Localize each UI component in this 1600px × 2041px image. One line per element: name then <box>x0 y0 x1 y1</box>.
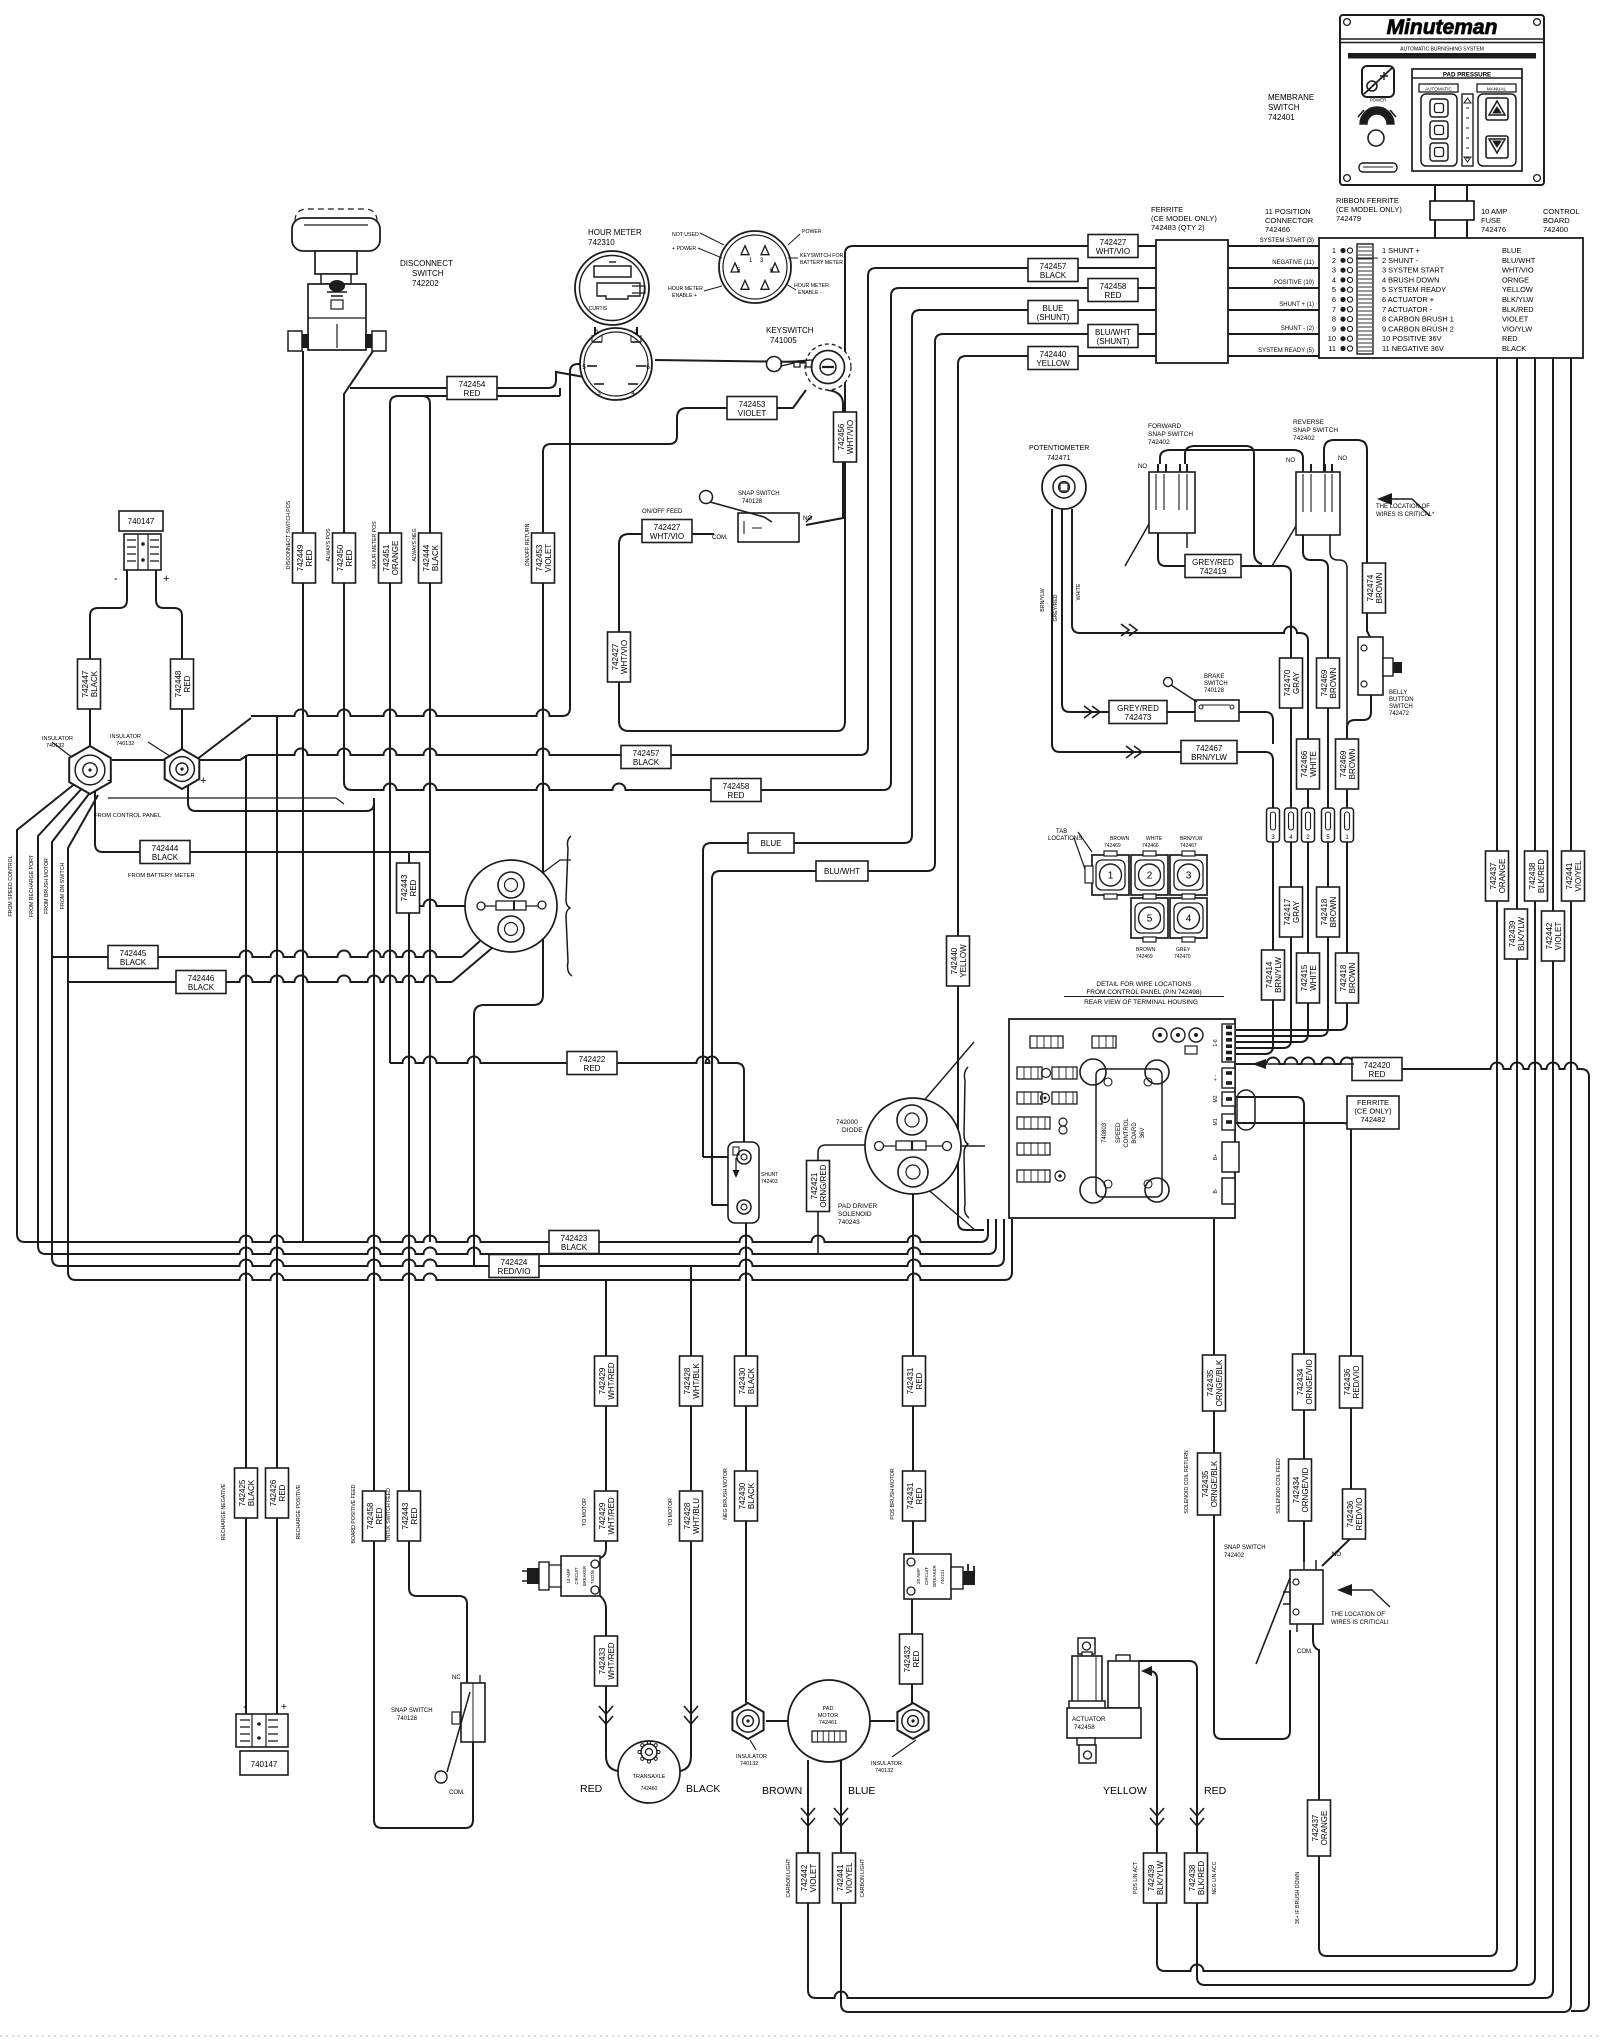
svg-text:PAD: PAD <box>823 1706 834 1712</box>
svg-text:MOTOR: MOTOR <box>818 1713 838 1719</box>
svg-text:742000: 742000 <box>836 1119 858 1126</box>
wire label 742442 VIOLET <box>797 1853 820 1903</box>
svg-text:BROWN: BROWN <box>1375 572 1384 603</box>
snap switch 740128 bottom <box>461 1683 485 1742</box>
wire 742457 black negative <box>112 755 248 760</box>
svg-text:SHUNT + (1): SHUNT + (1) <box>1279 302 1314 308</box>
svg-text:RED/VIO: RED/VIO <box>498 1267 531 1276</box>
svg-text:SWITCH: SWITCH <box>1268 103 1300 112</box>
svg-text:ORNG/RED: ORNG/RED <box>819 1164 828 1207</box>
svg-text:WHT/VIO: WHT/VIO <box>1096 247 1130 256</box>
svg-text:RED: RED <box>464 389 481 398</box>
wire 742443 red intlk switch feed <box>409 852 467 1683</box>
wire label 742448 RED <box>171 659 194 709</box>
svg-text:BROWN: BROWN <box>1329 667 1338 698</box>
svg-text:742435: 742435 <box>1201 1470 1210 1497</box>
knob <box>1368 130 1384 146</box>
wire forward NO to reverse switch <box>1160 450 1303 464</box>
svg-text:4: 4 <box>631 390 635 397</box>
svg-text:740147: 740147 <box>128 517 155 526</box>
wire 742448 red battery positive <box>156 570 182 751</box>
svg-text:742430: 742430 <box>738 1482 747 1509</box>
svg-text:10: 10 <box>1328 334 1336 343</box>
svg-text:6 ACTUATOR +: 6 ACTUATOR + <box>1382 295 1434 304</box>
speed control board 740803 <box>1096 1069 1162 1197</box>
svg-text:742466: 742466 <box>1142 843 1159 849</box>
svg-text:NEG BRUSH MOTOR: NEG BRUSH MOTOR <box>723 1468 729 1520</box>
svg-text:742472: 742472 <box>1389 711 1410 717</box>
svg-text:ORANGE: ORANGE <box>1320 1811 1329 1846</box>
svg-text:BLU/WHT: BLU/WHT <box>824 867 860 876</box>
svg-text:NO: NO <box>803 516 812 522</box>
wire from speed control <box>17 778 82 1242</box>
svg-text:RED: RED <box>728 791 745 800</box>
insulator 740132 right <box>897 1703 928 1739</box>
svg-text:742439: 742439 <box>1508 920 1517 947</box>
svg-text:742473: 742473 <box>1125 713 1152 722</box>
svg-text:740132: 740132 <box>46 743 64 749</box>
svg-text:PAD PRESSURE: PAD PRESSURE <box>1443 72 1491 79</box>
svg-text:742427: 742427 <box>1100 238 1127 247</box>
svg-text:SOLENOID: SOLENOID <box>838 1211 872 1218</box>
wire 742422 red <box>390 1057 736 1064</box>
svg-text:742443: 742443 <box>400 874 409 901</box>
svg-text:GREY/RED: GREY/RED <box>1192 558 1234 567</box>
svg-text:742310: 742310 <box>588 238 615 247</box>
wire label GREY/RED 742419 <box>1185 555 1241 578</box>
svg-text:4: 4 <box>1186 914 1192 925</box>
svg-text:COM.: COM. <box>449 1790 465 1796</box>
svg-text:742422: 742422 <box>579 1055 606 1064</box>
wire 742436 red/vio <box>1236 1123 1351 1566</box>
svg-text:5: 5 <box>582 364 586 371</box>
svg-text:WHT/RED: WHT/RED <box>607 1362 616 1400</box>
wire hour meter pin stubs <box>594 327 596 337</box>
svg-text:742444: 742444 <box>152 844 179 853</box>
svg-text:ORNGE/VID: ORNGE/VID <box>1301 1467 1310 1512</box>
svg-text:2: 2 <box>634 329 638 336</box>
svg-text:742442: 742442 <box>800 1864 809 1891</box>
wire label 742428 WHT/BLK <box>680 1356 703 1406</box>
svg-text:ORNGE/BLK: ORNGE/BLK <box>1215 1359 1224 1406</box>
snap switch 740128 <box>738 513 799 542</box>
page edge dotted line <box>0 2035 1600 2037</box>
wire label 742434 ORNGE/VID <box>1289 1459 1312 1521</box>
svg-text:CONTROL: CONTROL <box>1543 207 1580 216</box>
svg-text:+ POWER: + POWER <box>672 246 696 252</box>
wire label 742440 YELLOW <box>1028 347 1078 370</box>
transaxle 742460 <box>618 1741 680 1803</box>
svg-text:FROM ON SWITCH: FROM ON SWITCH <box>60 863 66 910</box>
svg-text:WHT/VIO: WHT/VIO <box>650 532 684 541</box>
svg-text:AUTOMATIC BURNISHING SYSTEM: AUTOMATIC BURNISHING SYSTEM <box>1400 47 1484 53</box>
svg-text:RED: RED <box>912 1650 921 1667</box>
svg-text:742453: 742453 <box>535 544 544 571</box>
wire label 742427 WHT/VIO <box>1088 235 1138 258</box>
hour meter connector <box>580 328 652 400</box>
svg-text:COM.: COM. <box>712 535 728 541</box>
svg-text:BELLY: BELLY <box>1389 690 1407 696</box>
wire label 742445 BLACK <box>108 946 158 969</box>
hour meter 742310 <box>575 251 649 325</box>
svg-text:5: 5 <box>1332 285 1336 294</box>
svg-text:DIODE: DIODE <box>842 1127 863 1134</box>
wire label 742441 VIO/YEL <box>833 1853 856 1903</box>
insulator 740132 left <box>732 1703 763 1739</box>
svg-text:YELLOW: YELLOW <box>1103 1785 1147 1797</box>
wire belly button to connector <box>1347 693 1371 808</box>
svg-text:742447: 742447 <box>81 670 90 697</box>
wire brake switch to connector <box>1239 712 1273 744</box>
svg-text:FROM RECHARGE PORT: FROM RECHARGE PORT <box>29 854 35 917</box>
wire 742442 violet carbon light <box>808 358 1553 1998</box>
svg-text:RECHARGE POSITIVE: RECHARGE POSITIVE <box>296 1484 302 1539</box>
wire 742467 brn/ylw <box>1052 509 1060 752</box>
svg-text:YELLOW: YELLOW <box>959 944 968 978</box>
svg-text:742402: 742402 <box>1224 1553 1245 1559</box>
svg-text:742403: 742403 <box>761 1179 778 1185</box>
bus wire 742424 red/vio <box>60 1260 996 1266</box>
pointer insulator 740132 <box>750 1740 756 1750</box>
svg-text:(SHUNT): (SHUNT) <box>1037 313 1070 322</box>
actuator 742458 <box>1078 1638 1095 1654</box>
svg-text:WHT/RED: WHT/RED <box>607 1497 616 1535</box>
svg-text:742482: 742482 <box>1360 1115 1385 1124</box>
svg-text:11 POSITION: 11 POSITION <box>1265 207 1311 216</box>
ferrite 742483 CE model only <box>1156 240 1228 363</box>
ribbon connector bar <box>1357 244 1373 354</box>
wire white potentiometer <box>1072 509 1308 808</box>
svg-text:WHITE: WHITE <box>1146 836 1163 842</box>
svg-text:VIOLET: VIOLET <box>738 409 767 418</box>
svg-text:ON/OFF FEED: ON/OFF FEED <box>642 509 683 515</box>
ferrite 742482 oval <box>1237 1090 1255 1130</box>
svg-text:740131: 740131 <box>940 1569 945 1585</box>
svg-text:742429: 742429 <box>598 1502 607 1529</box>
svg-text:BROWN: BROWN <box>1136 947 1156 953</box>
svg-text:HOUR METER POS: HOUR METER POS <box>372 521 378 569</box>
svg-text:BREAKER: BREAKER <box>932 1565 937 1587</box>
wire always pos 742450 <box>344 351 373 790</box>
svg-text:AUTOMATIC: AUTOMATIC <box>1425 87 1452 92</box>
disconnect switch 742202 <box>295 209 377 221</box>
wire label 742453 VIOLET <box>532 533 555 583</box>
svg-text:5 SYSTEM READY: 5 SYSTEM READY <box>1382 285 1446 294</box>
svg-text:RED: RED <box>345 549 354 566</box>
svg-text:M1: M1 <box>1213 1118 1219 1125</box>
wire positive feed to hour meter <box>196 718 251 760</box>
wire label 742439 BLK/YLW <box>1144 1853 1167 1903</box>
svg-text:-: - <box>243 1701 247 1713</box>
wire label 742423 BLACK <box>549 1231 599 1254</box>
svg-text:742470: 742470 <box>1283 669 1292 696</box>
svg-text:BLACK: BLACK <box>188 983 215 992</box>
svg-text:REAR VIEW OF TERMINAL HOUS: REAR VIEW OF TERMINAL HOUSING <box>1084 999 1198 1006</box>
svg-text:YELLOW: YELLOW <box>1502 285 1533 294</box>
wire label 742427 WHT/VIO <box>608 632 631 682</box>
svg-text:MANUAL: MANUAL <box>1487 87 1507 92</box>
wire blue shunt+ <box>703 310 1156 1157</box>
wire label 742458 RED <box>363 1491 386 1541</box>
svg-text:SNAP SWITCH: SNAP SWITCH <box>1148 431 1193 438</box>
svg-text:8: 8 <box>1332 315 1336 324</box>
svg-text:742466: 742466 <box>1265 225 1290 234</box>
wire label 742442 VIOLET <box>1542 911 1565 961</box>
wire 742438 blk/red neg lin act <box>1139 358 1535 1985</box>
svg-text:3 SYSTEM START: 3 SYSTEM START <box>1382 266 1445 275</box>
pad pressure controls <box>1412 69 1522 171</box>
wire 742469 brown <box>1303 535 1328 808</box>
svg-text:VIO/YEL: VIO/YEL <box>1574 860 1583 892</box>
pointer insulator 740132 right <box>148 742 176 760</box>
wire label 742426 RED <box>266 1468 289 1518</box>
svg-text:742436: 742436 <box>1343 1368 1352 1395</box>
wire pad motor right <box>869 1720 895 1722</box>
wire from recharge port <box>38 784 86 1254</box>
svg-text:740147: 740147 <box>251 1760 278 1769</box>
wire label 742443 RED <box>398 1491 421 1541</box>
snap switch 742402 lever <box>1256 1578 1290 1664</box>
svg-text:742454: 742454 <box>459 380 486 389</box>
svg-text:CIRCUIT: CIRCUIT <box>924 1567 929 1585</box>
svg-text:742436: 742436 <box>1346 1500 1355 1527</box>
svg-text:RED: RED <box>915 1372 924 1389</box>
snap switch 742402 bottom <box>1290 1570 1323 1624</box>
svg-text:COM.: COM. <box>1297 1649 1313 1655</box>
svg-text:RED: RED <box>1105 291 1122 300</box>
svg-text:VIO/YLW: VIO/YLW <box>1502 324 1532 333</box>
wire label 742458 RED <box>1088 279 1138 302</box>
svg-text:INTLK SWITCH FEED: INTLK SWITCH FEED <box>386 1488 392 1540</box>
svg-text:11 NEGATIVE 36V: 11 NEGATIVE 36V <box>1382 344 1444 353</box>
svg-text:ORNGE/VIO: ORNGE/VIO <box>1305 1359 1314 1404</box>
svg-text:VIOLET: VIOLET <box>1554 922 1563 951</box>
wire label 742444 BLACK <box>140 841 190 864</box>
svg-text:POTENTIOMETER: POTENTIOMETER <box>1029 445 1089 452</box>
wire label 742424 RED/VIO <box>489 1255 539 1278</box>
svg-text:BROWN: BROWN <box>1348 748 1357 779</box>
svg-text:742456: 742456 <box>837 423 846 450</box>
svg-text:BOARD POSITIVE FEED: BOARD POSITIVE FEED <box>351 1484 357 1543</box>
svg-text:FROM BATTERY METER: FROM BATTERY METER <box>128 873 195 879</box>
svg-text:TO MOTOR: TO MOTOR <box>582 1498 588 1526</box>
svg-text:742476: 742476 <box>1481 225 1506 234</box>
wire 742447 black battery negative <box>90 570 127 748</box>
wire label 742469 BROWN <box>1336 739 1359 789</box>
svg-text:742469: 742469 <box>1320 669 1329 696</box>
tab locations detail <box>1092 855 1129 895</box>
wire label 742418 BROWN <box>1317 887 1340 937</box>
svg-text:742471: 742471 <box>1047 455 1070 462</box>
svg-text:BLACK: BLACK <box>1502 344 1526 353</box>
wire 742439 blk/ylw pos lin act <box>1149 358 1517 1971</box>
svg-text:VIOLET: VIOLET <box>544 544 553 573</box>
svg-text:1: 1 <box>1332 246 1336 255</box>
svg-text:WIRES IS CRITICALI: WIRES IS CRITICALI <box>1331 1620 1389 1626</box>
svg-text:THE LOCATION OF: THE LOCATION OF <box>1331 1612 1385 1618</box>
svg-text:+ -: + - <box>1213 1075 1219 1081</box>
svg-text:NC: NC <box>452 1675 461 1681</box>
wire label 742458 RED <box>711 779 761 802</box>
svg-text:RIBBON FERRITE: RIBBON FERRITE <box>1336 196 1399 205</box>
svg-text:RED: RED <box>915 1487 924 1504</box>
wire label BLU/WHT <box>816 861 868 881</box>
svg-text:INSULATOR: INSULATOR <box>736 1754 767 1760</box>
wire label BLU/WHT (SHUNT) <box>1088 325 1138 348</box>
svg-text:740128: 740128 <box>742 499 763 505</box>
wire label 742447 BLACK <box>78 659 101 709</box>
svg-text:DISCONNECT SWITCH POS: DISCONNECT SWITCH POS <box>286 500 292 569</box>
svg-text:GREY: GREY <box>1176 947 1191 953</box>
wire 742444 black from battery meter <box>95 786 430 852</box>
snap switch pin stubs <box>1296 1624 1298 1632</box>
wire label 742457 BLACK <box>1028 259 1078 282</box>
svg-text:B+: B+ <box>1213 1154 1219 1160</box>
svg-text:RED: RED <box>183 675 192 692</box>
wire label 742418 BROWN <box>1336 953 1359 1003</box>
wire recharge negative 742425 <box>245 755 247 1714</box>
svg-text:742414: 742414 <box>1265 961 1274 988</box>
svg-text:742437: 742437 <box>1311 1814 1320 1841</box>
svg-text:SNAP SWITCH: SNAP SWITCH <box>391 1708 433 1714</box>
svg-text:6: 6 <box>646 364 650 371</box>
svg-text:LOCATIONS: LOCATIONS <box>1048 836 1082 842</box>
svg-text:BLU/WHT: BLU/WHT <box>1502 256 1536 265</box>
svg-text:10 AMP: 10 AMP <box>1481 207 1507 216</box>
svg-text:BLACK: BLACK <box>1040 271 1067 280</box>
wire label 742429 WHT/RED <box>595 1356 618 1406</box>
svg-text:740803: 740803 <box>1102 1122 1108 1143</box>
svg-text:-: - <box>114 573 118 585</box>
svg-text:742428: 742428 <box>683 1367 692 1394</box>
svg-text:FUSE: FUSE <box>1481 216 1501 225</box>
svg-text:742433: 742433 <box>598 1647 607 1674</box>
terminal housing rear view <box>1009 1019 1235 1218</box>
svg-text:742426: 742426 <box>269 1479 278 1506</box>
wire label 740147 <box>119 511 163 531</box>
svg-text:742443: 742443 <box>401 1502 410 1529</box>
svg-text:ON/OFF RETURN: ON/OFF RETURN <box>525 523 531 566</box>
svg-text:RED: RED <box>278 1484 287 1501</box>
wire continuation chevrons <box>1121 624 1129 636</box>
svg-text:POWER: POWER <box>802 229 822 235</box>
svg-text:742438: 742438 <box>1188 1864 1197 1891</box>
svg-text:8 CARBON BRUSH 1: 8 CARBON BRUSH 1 <box>1382 315 1454 324</box>
svg-text:SOLENOID COIL RETURN: SOLENOID COIL RETURN <box>1184 1450 1190 1513</box>
svg-text:CARBON LIGHT: CARBON LIGHT <box>786 1858 792 1898</box>
wire label 742467 BRN/YLW <box>1181 741 1237 764</box>
svg-text:9: 9 <box>1332 324 1336 333</box>
svg-text:TRANSAXLE: TRANSAXLE <box>633 1774 666 1780</box>
svg-text:3: 3 <box>1186 871 1192 882</box>
potentiometer 742471 <box>1042 465 1086 509</box>
pad driver solenoid 740243 with diode 742000 <box>865 1098 961 1194</box>
svg-text:BLACK: BLACK <box>431 544 440 571</box>
svg-text:742429: 742429 <box>598 1367 607 1394</box>
svg-text:REVERSE: REVERSE <box>1293 419 1325 426</box>
wire label 742420 RED <box>1352 1058 1402 1081</box>
wire 742437 orange brush down <box>1313 358 1497 1956</box>
svg-text:ACTUATOR: ACTUATOR <box>1072 1716 1106 1723</box>
wire label 742425 BLACK <box>235 1468 258 1518</box>
svg-text:BLUE: BLUE <box>1502 246 1521 255</box>
wire label 742446 BLACK <box>176 971 226 994</box>
wire on/off return 742453 violet <box>474 390 806 1266</box>
svg-text:BLK/YLW: BLK/YLW <box>1156 1861 1165 1896</box>
key <box>767 357 782 372</box>
svg-text:742453: 742453 <box>739 400 766 409</box>
wire label 742438 BLK/RED <box>1185 1853 1208 1903</box>
svg-text:742202: 742202 <box>412 279 439 288</box>
svg-text:2: 2 <box>1332 256 1336 265</box>
svg-text:740236: 740236 <box>590 1569 595 1584</box>
wire label 742441 VIO/YEL <box>1562 851 1585 901</box>
wire 742420 red extension <box>1400 1063 1581 1070</box>
wire label 742440 YELLOW <box>947 936 970 986</box>
forward snap switch 742402 <box>1149 472 1195 533</box>
wire 742434 orng/vio solenoid coil feed <box>1236 1097 1304 1562</box>
svg-text:BROWN: BROWN <box>762 1785 802 1797</box>
svg-text:BRN/YLW: BRN/YLW <box>1274 957 1283 993</box>
wire label GREY/RED 742473 <box>1109 701 1167 724</box>
svg-text:740128: 740128 <box>1204 688 1225 694</box>
svg-text:WHITE: WHITE <box>1076 583 1082 600</box>
wire label 742453 VIOLET <box>727 397 777 420</box>
svg-text:BLACK: BLACK <box>120 958 147 967</box>
wire keyswitch to connector pin 6 <box>655 360 805 362</box>
svg-text:742467: 742467 <box>1196 744 1223 753</box>
connector pointer lines <box>700 233 724 245</box>
wire 742418 brown to housing <box>1236 842 1328 1036</box>
svg-text:WHT/VIO: WHT/VIO <box>846 420 855 454</box>
svg-text:SPEED: SPEED <box>1116 1122 1122 1143</box>
svg-text:742437: 742437 <box>1489 862 1498 889</box>
wire label BLUE <box>748 833 794 853</box>
svg-text:1: 1 <box>595 329 599 336</box>
svg-text:RED: RED <box>410 1507 419 1524</box>
control board 742400 with 11 position connector 742466 <box>1319 238 1583 358</box>
reverse snap switch 742402 <box>1296 472 1340 535</box>
svg-text:BRN/YLW: BRN/YLW <box>1180 836 1203 842</box>
svg-text:HOUR METER: HOUR METER <box>668 286 703 292</box>
wire blu/wht shunt- <box>712 334 1156 1205</box>
svg-text:+: + <box>281 1702 287 1713</box>
svg-text:BLK/RED: BLK/RED <box>1197 1861 1206 1895</box>
svg-text:SYSTEM READY (5): SYSTEM READY (5) <box>1258 348 1314 354</box>
svg-text:RED: RED <box>584 1064 601 1073</box>
svg-text:DISCONNECT: DISCONNECT <box>400 259 453 268</box>
wire label 742427 WHT/VIO <box>642 520 692 543</box>
forward snap switch pins <box>1157 464 1159 474</box>
bracket <box>964 1067 969 1218</box>
svg-text:VIOLET: VIOLET <box>809 1864 818 1893</box>
svg-text:RED: RED <box>1369 1070 1386 1079</box>
svg-text:RED/VIO: RED/VIO <box>1352 1366 1361 1399</box>
wire disconnect switch pos 742449 <box>302 351 304 1242</box>
svg-text:GRAY: GRAY <box>1292 900 1301 923</box>
wire label 742435 ORNGE/BLK <box>1203 1355 1226 1411</box>
svg-text:SYSTEM START (3): SYSTEM START (3) <box>1260 238 1314 244</box>
svg-text:742458: 742458 <box>1100 282 1127 291</box>
svg-text:740243: 740243 <box>838 1219 860 1226</box>
connector strip <box>1267 808 1280 842</box>
svg-text:742474: 742474 <box>1366 574 1375 601</box>
svg-text:2 SHUNT -: 2 SHUNT - <box>1382 256 1419 265</box>
wire label 742430 BLACK <box>735 1471 758 1521</box>
svg-text:WIRES IS CRITICAL*: WIRES IS CRITICAL* <box>1376 512 1435 518</box>
wire label 742438 BLK/RED <box>1525 851 1548 901</box>
svg-text:CIRCUIT: CIRCUIT <box>574 1567 579 1584</box>
